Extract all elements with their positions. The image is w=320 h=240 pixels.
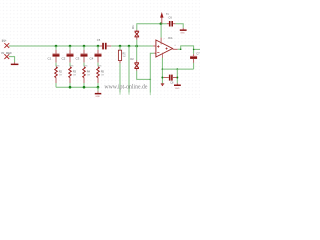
node junction on IN+ wire at C3 (83, 45, 86, 48)
svg-text:D2: D2 (130, 57, 134, 61)
node junction at R1 tap (119, 45, 122, 48)
diode D2 (signal to reference clamp) (134, 46, 139, 71)
svg-text:1M: 1M (123, 56, 126, 58)
svg-text:C7: C7 (196, 51, 200, 55)
wire IN+ main horizontal (9, 45, 100, 47)
resistor R2 (55, 63, 63, 88)
node junction V- at y69 (162, 68, 164, 70)
svg-text:C6: C6 (168, 15, 172, 19)
svg-text:R4: R4 (87, 70, 91, 74)
watermark (104, 85, 148, 91)
ground AGND triangle (161, 83, 164, 86)
svg-text:10M: 10M (97, 66, 101, 68)
svg-text:GND: GND (175, 88, 180, 90)
svg-text:IN+: IN+ (2, 39, 7, 43)
node junction at out tap (193, 49, 195, 51)
ground GND at x177 (174, 83, 181, 90)
svg-text:IN_REF: IN_REF (1, 51, 12, 55)
svg-text:10M: 10M (69, 66, 73, 68)
capacitor C4 (90, 46, 102, 63)
ground GND at IN_REF (11, 64, 19, 66)
wire IN_REF (9, 57, 15, 64)
svg-text:R3: R3 (73, 70, 77, 74)
wire V+ pin drop (160, 24, 162, 42)
node junction on IN+ wire at C4 (97, 45, 100, 48)
ground GND below rail (95, 87, 102, 98)
wire C6 to ground corner (175, 24, 183, 28)
port IN+ pin X (4, 43, 9, 48)
node junction at output corner (180, 49, 182, 51)
ground GND at supply (180, 28, 187, 34)
svg-text:1M: 1M (87, 75, 90, 77)
diode D2 label (130, 57, 134, 61)
svg-text:1M: 1M (59, 75, 62, 77)
svg-text:1M: 1M (73, 75, 76, 77)
node junction at 177,69 (177, 68, 179, 70)
wire x177 vertical (176, 69, 178, 83)
node junction at 150,79 (150, 79, 152, 81)
port IN+ label (2, 39, 7, 43)
wire y69 horizontal V- to C7 bottom (162, 68, 193, 70)
wire V- pin drop (161, 56, 163, 83)
capacitor C3 (76, 46, 88, 63)
wire R1 to bottom edge (119, 63, 121, 94)
node junction on IN+ wire at C1 (55, 45, 58, 48)
svg-text:C2: C2 (62, 56, 66, 60)
svg-text:IC1: IC1 (168, 36, 173, 40)
svg-text:1M: 1M (101, 75, 104, 77)
resistor R1 (box) (118, 46, 126, 63)
node junction at x129 tap (128, 45, 131, 48)
svg-text:R5: R5 (101, 70, 105, 74)
supply rail +5V wire (137, 23, 167, 26)
svg-text:C4: C4 (90, 56, 94, 60)
svg-text:www.ipt-online.de: www.ipt-online.de (104, 85, 148, 91)
svg-text:C3: C3 (76, 56, 80, 60)
capacitor C6 (supply decoupling) (167, 15, 176, 26)
svg-text:D1: D1 (131, 25, 135, 29)
svg-text:10M: 10M (83, 66, 87, 68)
svg-text:GND: GND (95, 96, 100, 98)
port IN_REF pin X (4, 54, 9, 59)
supply symbol +5V arrow (160, 12, 169, 24)
capacitor C1 (48, 46, 60, 63)
op-amp IC1 (153, 40, 177, 57)
node junction V- at y77.5 (161, 77, 163, 79)
capacitor C8 (164, 75, 177, 85)
node junction rail at R5 (97, 86, 100, 89)
pin number 7 (163, 39, 165, 41)
node junction on IN+ wire at C2 (69, 45, 72, 48)
op-amp IC1 label (168, 36, 173, 40)
node junction on supply rail (160, 22, 163, 25)
svg-text:C1: C1 (48, 56, 52, 60)
svg-text:5V: 5V (166, 12, 169, 16)
svg-text:10M: 10M (55, 66, 59, 68)
capacitor C2 (62, 46, 74, 63)
node junction at 177,77.5 (176, 77, 178, 79)
svg-text:R2: R2 (59, 70, 63, 74)
wire C5 to op-amp (111, 45, 153, 47)
port IN_REF label (1, 51, 12, 55)
diode D1 label (131, 25, 135, 29)
wire x129 to bottom edge (128, 46, 130, 95)
wire op-amp ref input vertical (150, 53, 156, 95)
wire bottom reference rail (56, 86, 98, 88)
wire D2 bottom to reference vertical (137, 71, 151, 80)
svg-text:C5: C5 (97, 38, 101, 42)
resistor R5 (97, 63, 105, 88)
node junction at D1/D2 tap (135, 45, 138, 48)
node junction rail at R3 (69, 86, 72, 89)
capacitor C7 (190, 51, 200, 69)
diode D1 (signal to supply clamp) (135, 24, 140, 46)
svg-text:GND: GND (180, 32, 185, 34)
resistor R4 (83, 63, 91, 88)
wire output net (178, 46, 200, 54)
capacitor C5 (series in signal path) (97, 38, 112, 49)
node junction rail at R4 (83, 86, 86, 89)
resistor R3 (69, 63, 77, 88)
pin number 6 (175, 45, 177, 47)
